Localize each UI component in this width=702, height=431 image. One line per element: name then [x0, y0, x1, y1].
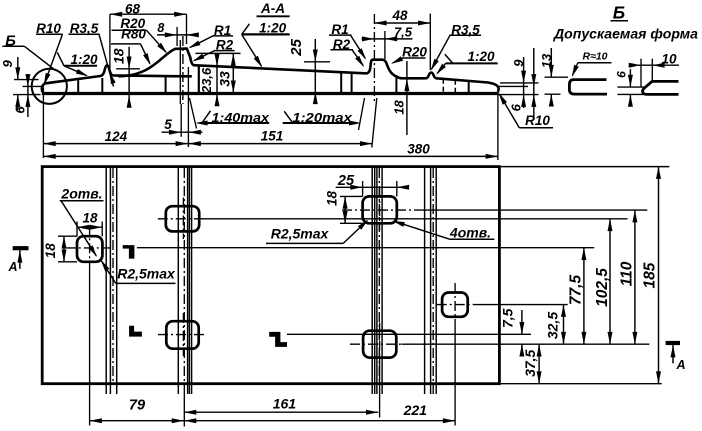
dimension 124	[43, 129, 188, 146]
dimension 110	[619, 210, 638, 344]
dimension 6 (right, vertical)	[509, 48, 537, 117]
projection line: hole A right edge in section	[101, 78, 103, 92]
slope mark 1:40max	[195, 110, 270, 126]
dimension 185	[642, 167, 662, 384]
detail circle Б around left tip	[32, 69, 67, 104]
svg-text:2отв.: 2отв.	[60, 186, 102, 202]
break mark M1 on row line of hole A	[123, 245, 135, 259]
right tip extension line upper (y=82.9)	[500, 82, 539, 84]
label R≈10 with leader	[572, 51, 612, 78]
label R2,5max (hole A) with leader	[101, 260, 176, 284]
hole C top	[363, 196, 397, 223]
plan group B solid line 4	[191, 168, 193, 394]
dimension 37,5	[522, 344, 542, 384]
hidden line: hole D centreline in section	[454, 80, 456, 93]
svg-text:6: 6	[12, 106, 27, 114]
svg-text:R≈10: R≈10	[582, 51, 607, 63]
plan group C solid line 1	[371, 168, 373, 394]
label R20 right with leader	[391, 45, 427, 64]
svg-text:А-А: А-А	[260, 1, 285, 16]
hole B bottom	[166, 321, 198, 349]
oblique extension for 151 right end	[372, 98, 377, 148]
row line of hole B top (102,5 datum)	[199, 218, 627, 220]
section plane mark A (left)	[7, 246, 28, 274]
svg-text:221: 221	[403, 402, 428, 418]
dimension 5 (shoulder)	[162, 104, 203, 137]
svg-text:Допускаемая форма: Допускаемая форма	[553, 27, 699, 42]
detail 1 shape (blunt tip R~10)	[569, 80, 607, 95]
dimension 25 width of hole C top	[336, 173, 409, 197]
dimension 48	[374, 8, 430, 70]
label R2,5max (hole C top) with leader	[266, 220, 368, 244]
svg-text:380: 380	[407, 141, 430, 156]
tip extension line upper (y=79.6)	[14, 79, 39, 81]
svg-text:102,5: 102,5	[594, 268, 611, 307]
svg-text:4отв.: 4отв.	[449, 225, 491, 241]
plan group B solid line 1	[177, 168, 179, 394]
break mark M2 on row line of hole B bottom	[129, 326, 142, 337]
dimension 77,5	[568, 248, 587, 345]
svg-text:68: 68	[125, 2, 141, 17]
svg-text:R10: R10	[525, 113, 550, 128]
svg-text:18: 18	[325, 191, 340, 207]
plan group C centre dash-dot	[378, 168, 380, 382]
dimension 18 width of hole A	[77, 210, 102, 236]
break mark M3 (stepped) on row line of hole B bottom	[269, 332, 287, 347]
extension line right of left shoulder	[187, 67, 189, 147]
plan group C solid line (161-dim extension)	[376, 168, 378, 394]
svg-text:151: 151	[261, 129, 284, 144]
projection line: hole D right edge in section	[468, 81, 470, 93]
dimension 18 (right, height after shoulder)	[392, 61, 410, 135]
dimension 161	[184, 396, 378, 415]
plan bottom edge extension to the right	[501, 383, 662, 385]
hole D (right)	[442, 293, 468, 317]
projection line: hole A left edge in section	[77, 80, 79, 92]
svg-text:48: 48	[391, 8, 408, 23]
label R10 left with leader	[36, 21, 63, 85]
svg-text:10: 10	[661, 52, 677, 67]
svg-text:161: 161	[273, 396, 297, 412]
dimension 13 (detail 1)	[539, 48, 554, 107]
plan group A solid line 3	[116, 168, 118, 394]
row line of hole A (77,5 datum)	[137, 247, 594, 249]
svg-text:1:20: 1:20	[467, 49, 495, 64]
dimension 7,5 (right shoulder)	[362, 24, 413, 59]
svg-text:7,5: 7,5	[500, 308, 516, 328]
svg-text:79: 79	[129, 398, 145, 414]
hole A crosshair	[66, 225, 111, 425]
tip extension line middle (y=86.4)	[23, 85, 45, 87]
hole B top crosshair	[158, 198, 207, 240]
row line of hole C top (110 datum)	[419, 209, 648, 211]
label R2 (left shoulder) with leader	[192, 38, 234, 62]
slope mark 1:20 (left end)	[57, 52, 98, 76]
hole B bottom crosshair	[158, 313, 207, 356]
dimension 18 height of hole A	[43, 236, 77, 262]
dimension 151	[189, 129, 373, 147]
svg-text:25: 25	[288, 38, 305, 56]
hole B top	[166, 206, 199, 231]
svg-text:18: 18	[111, 48, 127, 64]
slope mark 1:20 (right end)	[436, 49, 498, 75]
hole C bottom	[363, 331, 396, 358]
dimension 9 (left, vertical)	[0, 57, 20, 110]
section left shoulder (R80/R20 curve, 8-wide top, right side to rail seat)	[119, 49, 195, 77]
label Б with leader	[2, 32, 55, 70]
detail 2 shape (chamfered tip)	[643, 81, 679, 94]
dimension 102,5	[594, 219, 613, 344]
dimension 221 text	[403, 402, 428, 418]
dimension 23,6 (vertical at seat)	[199, 54, 220, 106]
plan group C solid line 3	[381, 168, 383, 394]
slope mark 1:20max	[283, 110, 362, 126]
svg-text:33: 33	[217, 71, 233, 87]
plan group B centre dash-dot (dim extension)	[183, 168, 185, 427]
detail 2 extension lines	[617, 59, 652, 95]
svg-text:25: 25	[337, 173, 355, 189]
label R3,5 right with leader	[431, 22, 481, 70]
label R1 (left shoulder) with leader	[188, 23, 233, 49]
svg-text:18: 18	[392, 100, 407, 115]
svg-text:32,5: 32,5	[545, 312, 561, 339]
label R3,5 left with leader	[69, 21, 116, 87]
right tip extension line lower (baseline)	[499, 94, 539, 96]
left shoulder centre dash-dot line	[182, 36, 184, 104]
hole C bottom crosshair	[350, 323, 402, 418]
svg-text:37,5: 37,5	[522, 349, 538, 376]
view title A-A	[257, 1, 290, 16]
label R20 left with leader	[112, 16, 168, 54]
plan group B solid line 2	[187, 168, 189, 394]
svg-text:7,5: 7,5	[394, 24, 413, 39]
plan group A solid line 1	[105, 168, 107, 394]
svg-text:9: 9	[0, 59, 15, 67]
svg-text:R80: R80	[121, 27, 146, 42]
label 4отв. with leader	[392, 221, 494, 241]
svg-text:R2,5max: R2,5max	[271, 226, 330, 242]
dimension 68 (line, arrows, extensions)	[110, 2, 187, 68]
dimension 380	[43, 141, 498, 159]
svg-text:6: 6	[615, 71, 629, 78]
svg-text:6: 6	[509, 103, 524, 111]
row line of hole B bottom	[287, 333, 531, 335]
row line of hole D (32,5 datum)	[473, 304, 568, 306]
svg-text:18: 18	[82, 210, 98, 225]
dimension 79 and 221 shared line	[90, 418, 456, 423]
dimension 8 (shoulder top width)	[157, 21, 199, 46]
caption: Допускаемая форма	[553, 27, 699, 42]
label 2отв. with leader	[60, 186, 104, 258]
svg-text:А: А	[675, 358, 685, 372]
label R10 right with leader	[499, 93, 553, 128]
hole D crosshair	[437, 283, 473, 426]
extension line from right tip down	[497, 92, 499, 161]
dimension 79 text	[129, 398, 145, 414]
section step line 1 (A-A stepped cut)	[340, 72, 342, 92]
section right shoulder (R1/R2 fillets, top, R20 down-curve, R3.5 bump, 1:20 end slope, R10 tip)	[367, 60, 499, 92]
dimension 25 (seat depth)	[288, 38, 330, 104]
plan group D solid line 2	[430, 168, 432, 394]
dimension 9 (right, vertical)	[511, 57, 526, 108]
dimension 18 height of hole C top	[325, 191, 363, 224]
svg-text:77,5: 77,5	[568, 275, 585, 306]
label R80 left with leader	[111, 27, 151, 66]
plan group A solid line 2	[109, 168, 111, 394]
dimension 10 (detail 2)	[629, 52, 679, 68]
right shoulder centre dash-dot line	[373, 14, 375, 103]
extension line through left shoulder	[179, 40, 181, 104]
svg-text:А: А	[7, 260, 17, 274]
section plane mark A (right)	[666, 341, 686, 372]
projection line: hole B left edge in section	[165, 76, 167, 92]
plan group D centre dash-dot	[432, 168, 434, 394]
tip extension line lower (baseline)	[13, 94, 41, 96]
plan group C solid line 2	[374, 168, 376, 394]
hidden line: hole D left edge in section	[442, 79, 444, 92]
plan group D solid line 1	[424, 168, 426, 394]
projection line: hole B right edge in section	[198, 65, 200, 92]
section A-A baseline (bottom face of plate)	[42, 92, 499, 95]
dimension 18 near bump (vertical)	[111, 47, 140, 108]
svg-text:23,6: 23,6	[199, 67, 214, 94]
extension line from left tip down	[42, 88, 44, 159]
plan group B solid line 3	[188, 168, 190, 394]
svg-text:18: 18	[43, 243, 58, 259]
svg-text:Б: Б	[613, 3, 625, 23]
dimension 6 (left, vertical)	[12, 74, 30, 117]
plan top edge extension to the right	[501, 166, 670, 168]
hole C top crosshair	[342, 188, 419, 231]
dimension 6 (detail 2)	[615, 69, 633, 107]
section A-A top outline (left tip, 1:20 slope, R3.5 bump, rear flat)	[42, 65, 192, 92]
projection line: hole C right edge in section	[395, 75, 397, 92]
rail seat surface sloping 1:20	[193, 65, 368, 73]
svg-text:185: 185	[642, 262, 659, 288]
hole A (left, 2 holes 18x18)	[77, 236, 102, 262]
dimension 32,5	[545, 305, 567, 345]
label R1 (right shoulder) with leader	[329, 22, 366, 60]
right tip extension line middle (y=86.4)	[499, 85, 529, 87]
svg-text:110: 110	[619, 261, 636, 286]
plan view plate outline	[42, 167, 499, 384]
section step line 2 (A-A stepped cut)	[351, 73, 353, 93]
oblique extension right (1:20max)	[359, 98, 365, 130]
row line of hole C bottom	[402, 343, 650, 345]
oblique extension left (1:40max)	[190, 98, 197, 129]
svg-text:124: 124	[105, 129, 128, 144]
svg-text:5: 5	[164, 117, 172, 132]
detail title Б	[611, 3, 629, 23]
detail 1 extension lines	[545, 77, 569, 94]
plan group A centre dash-dot	[112, 168, 114, 382]
dimension 7,5 (right rows)	[500, 308, 525, 356]
dimension 33 (vertical, shoulder height)	[196, 53, 241, 92]
plan group D solid line 3	[435, 168, 437, 394]
slope mark 1:20 (rail seat)	[242, 21, 290, 68]
label R2 (right shoulder) with leader	[331, 37, 365, 67]
svg-text:R2,5max: R2,5max	[117, 266, 176, 282]
svg-text:8: 8	[157, 21, 164, 35]
